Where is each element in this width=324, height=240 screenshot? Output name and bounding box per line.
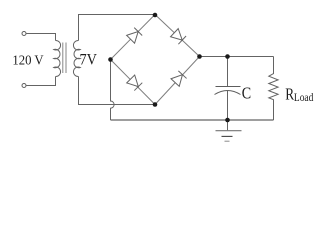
capacitor C bottom plate	[215, 90, 241, 94]
wire negative rail with hop over AC wire	[111, 60, 115, 121]
ground	[216, 120, 242, 141]
wire bridge edge top-left	[111, 15, 156, 60]
diode D4	[171, 71, 187, 87]
wire primary top	[26, 34, 55, 41]
inductor primary winding	[54, 40, 61, 76]
inductor secondary winding	[73, 40, 80, 76]
wire positive rail	[200, 56, 274, 58]
capacitor C top plate	[216, 86, 241, 88]
node capacitor top junction	[225, 54, 230, 59]
diode D2	[171, 29, 187, 45]
node bottom (bridge AC input)	[153, 102, 158, 107]
svg-text:120 V: 120 V	[12, 53, 43, 68]
wire bridge edge top-right	[155, 15, 200, 57]
node left (bridge DC-)	[108, 57, 113, 62]
resistor R_Load	[269, 57, 278, 121]
wire bridge edge bottom-left	[111, 60, 156, 105]
diode D1	[127, 28, 143, 44]
node ground junction	[225, 118, 230, 123]
wire secondary bottom to bridge	[79, 77, 156, 105]
svg-text:7V: 7V	[80, 52, 98, 69]
svg-text:R: R	[285, 84, 294, 103]
wire primary bottom	[26, 77, 55, 86]
node right (bridge DC+)	[197, 54, 202, 59]
svg-text:Load: Load	[294, 91, 314, 104]
terminal J1 (120V top)	[22, 32, 26, 36]
node top (bridge AC input)	[153, 13, 158, 18]
svg-text:C: C	[242, 83, 251, 102]
wire bridge edge bottom-right	[155, 57, 200, 105]
wire secondary top to bridge	[79, 15, 156, 41]
diode D3	[127, 75, 143, 91]
terminal J2 (120V bottom)	[22, 84, 26, 88]
wire capacitor bottom lead	[227, 91, 229, 120]
transformer core	[63, 43, 66, 74]
wire capacitor top lead	[227, 57, 229, 87]
